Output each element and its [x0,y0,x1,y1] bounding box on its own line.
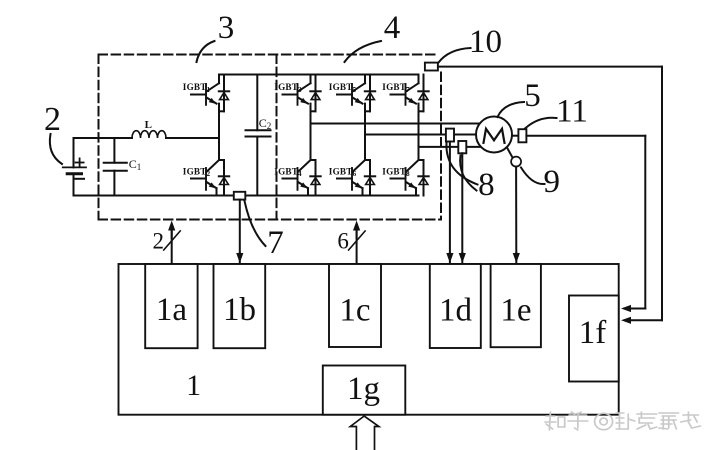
svg-text:7: 7 [267,225,284,261]
svg-text:1a: 1a [156,292,188,328]
svg-text:L: L [145,119,152,131]
svg-text:1g: 1g [347,371,380,407]
svg-text:1: 1 [186,369,201,402]
svg-text:8: 8 [478,167,495,203]
svg-text:2: 2 [44,101,61,138]
svg-text:5: 5 [524,78,541,114]
svg-text:1b: 1b [223,292,256,328]
svg-text:1f: 1f [579,315,607,351]
svg-text:9: 9 [544,164,561,200]
svg-text:2: 2 [152,229,164,254]
svg-text:1e: 1e [500,293,531,329]
svg-text:1c: 1c [339,293,370,329]
svg-text:10: 10 [469,24,502,60]
svg-text:1d: 1d [439,293,473,329]
svg-text:4: 4 [384,10,401,46]
svg-text:3: 3 [218,10,235,46]
svg-text:6: 6 [337,229,349,254]
svg-text:11: 11 [556,94,588,130]
